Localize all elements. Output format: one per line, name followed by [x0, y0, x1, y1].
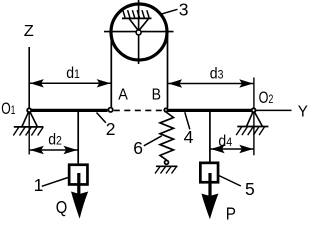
weight 1 box — [69, 165, 87, 185]
d2 right arrowhead — [64, 146, 78, 154]
beam rod 2 (O1 to A) — [29, 109, 107, 112]
pulley vertical axis line — [138, 0, 140, 64]
svg-text:P: P — [226, 203, 236, 222]
pulley ceiling hatching — [123, 10, 150, 18]
svg-text:4: 4 — [184, 127, 194, 147]
force Q arrow shaft — [77, 173, 80, 197]
spring ground line — [156, 165, 178, 167]
pin support O1: ground line — [14, 126, 44, 128]
pin support O1: center strut and d2 extension — [28, 110, 30, 154]
beam rod 4 (B to O2) — [168, 109, 254, 112]
svg-text:Y: Y — [298, 103, 309, 120]
force Q arrowhead — [71, 192, 88, 219]
pulley horizontal axis line — [104, 31, 174, 33]
dimension d1 line — [29, 82, 111, 84]
pin support O2: ground line — [237, 126, 268, 128]
svg-text:Q: Q — [56, 197, 67, 217]
leader to label 5 — [219, 176, 241, 187]
joint A circle — [108, 108, 112, 112]
dimension d3 line — [168, 83, 254, 85]
force P arrowhead — [201, 194, 218, 220]
svg-text:5: 5 — [245, 179, 255, 199]
pin support O1: triangle — [22, 110, 38, 127]
Y axis — [254, 109, 292, 111]
pulley 3 wheel — [111, 4, 167, 60]
rope to weight 1 — [77, 112, 79, 165]
leader to label 2 — [97, 113, 106, 123]
force P arrow shaft — [208, 173, 211, 197]
spring ground hatching — [155, 167, 177, 174]
pin support O1: ground hatching — [13, 127, 43, 135]
pulley bracket triangle — [129, 18, 149, 31]
rope right (pulley to B) — [167, 32, 169, 108]
pin O1 circle — [27, 108, 31, 112]
svg-text:1: 1 — [34, 175, 44, 195]
leader to label 6 — [144, 136, 162, 146]
d1 left arrowhead — [30, 79, 44, 87]
pin support O2: triangle — [247, 110, 263, 126]
rope to weight 5 — [209, 112, 211, 163]
d2 left arrowhead — [30, 146, 44, 154]
pulley ceiling line — [122, 17, 152, 19]
pin support O2: ground hatching — [236, 127, 264, 135]
spring bottom eye — [165, 160, 169, 164]
rope left (pulley to A) — [110, 32, 112, 107]
svg-text:B: B — [152, 86, 161, 104]
svg-text:2: 2 — [106, 119, 116, 139]
svg-text:6: 6 — [133, 138, 143, 158]
svg-text:Z: Z — [24, 22, 34, 40]
d3 right arrowhead — [239, 79, 253, 87]
leader to label 1 — [42, 178, 68, 187]
spring 6 zigzag — [160, 112, 174, 160]
weight 5 box — [200, 163, 218, 182]
pin O2 circle — [252, 108, 256, 112]
Z axis — [28, 47, 30, 110]
leader to label 4 — [185, 112, 190, 129]
dimension d2 line — [29, 149, 78, 151]
pulley hub — [136, 30, 141, 35]
leader to label 3 — [161, 9, 178, 14]
svg-text:3: 3 — [179, 0, 189, 20]
d1 right arrowhead — [97, 79, 111, 87]
pin support O2: center strut with d3/d4 extension line — [253, 78, 255, 156]
svg-text:A: A — [118, 86, 128, 104]
d3 left arrowhead — [168, 79, 182, 87]
dimension d4 line — [210, 148, 254, 150]
d4 right arrowhead — [239, 145, 253, 153]
joint B circle — [164, 108, 167, 111]
dashed link A-B — [114, 109, 163, 111]
d4 left arrowhead — [211, 145, 225, 153]
